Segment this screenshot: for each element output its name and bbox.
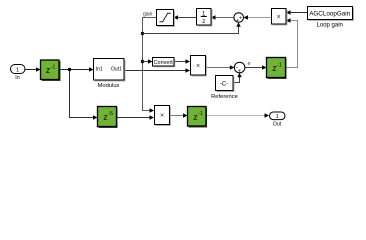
node junction after Z1 (68, 68, 71, 71)
arrow into product1 upper (286, 10, 291, 14)
wire z-5 to product3 lower input (117, 117, 151, 119)
svg-text:1: 1 (276, 114, 279, 120)
saturation block (157, 10, 176, 28)
svg-text:Out1: Out1 (111, 67, 122, 73)
svg-text:In1: In1 (96, 67, 103, 73)
wire In to Z1 (25, 69, 37, 71)
arrow into Modulus (89, 67, 94, 71)
node junction gain to sum1 feedback (141, 32, 144, 35)
wire Convert to product2 upper input (175, 61, 188, 63)
Convert block (153, 58, 176, 68)
svg-text:-1: -1 (51, 64, 56, 70)
wire Z1 mid feedback up to product1 (286, 21, 298, 68)
svg-text:1: 1 (16, 68, 19, 74)
node junction gain to Convert (141, 60, 144, 63)
arrow into product2 upper (186, 59, 191, 63)
wire product2 to sum2 (206, 67, 232, 69)
wire sum1 to unit delay 1/z (214, 17, 234, 19)
unit delay 1/z (197, 9, 213, 27)
subsystem Modulus (94, 59, 126, 90)
svg-text:Reference: Reference (211, 94, 238, 100)
svg-text:×: × (160, 113, 164, 120)
product2 (middle multiply) (191, 56, 208, 77)
sum1 (top accumulator) (234, 13, 244, 25)
arrow into product3 upper (150, 108, 155, 112)
arrow into Z1 in (36, 67, 41, 71)
arrow into z-5 (93, 115, 98, 119)
wire to Convert (143, 61, 150, 63)
arrow into product1 lower (286, 18, 291, 22)
arrow into product3 lower (150, 115, 155, 119)
unit delay Z1 (green, input) (41, 60, 61, 81)
arrow into Convert (148, 59, 153, 63)
arrow into sum2 bottom (237, 73, 241, 78)
svg-text:Modulus: Modulus (98, 83, 120, 89)
wire branch down to z-5 (70, 70, 95, 118)
svg-text:In: In (15, 75, 19, 81)
svg-text:-1: -1 (198, 111, 203, 117)
constant AGCLoopGain (308, 7, 355, 29)
svg-text:×: × (277, 14, 281, 21)
svg-text:e: e (248, 61, 251, 67)
wire Modulus to product2 lower input (124, 70, 187, 72)
wire sum2 to Z1 mid (245, 67, 264, 69)
constant Reference (211, 76, 238, 101)
wire AGCLoopGain to product1 (289, 12, 307, 14)
arrow into product2 lower (186, 68, 191, 72)
wire product3 to Z1 bottom (170, 115, 185, 117)
product1 (top multiply) (272, 9, 288, 26)
delay z-5 (green) (98, 107, 118, 129)
outport Out (270, 112, 286, 127)
svg-text:Loop gain: Loop gain (317, 23, 343, 29)
svg-text:AGCLoopGain: AGCLoopGain (309, 10, 350, 17)
wire 1/z to saturation (177, 17, 197, 19)
sum2 (error) (234, 62, 245, 74)
svg-text:×: × (196, 63, 200, 70)
arrow into 1/z (211, 15, 216, 19)
svg-text:Out: Out (273, 121, 282, 127)
product3 (bottom multiply) (155, 106, 172, 127)
svg-text:-1: -1 (277, 62, 282, 68)
arrow into Z1 bottom (183, 113, 188, 117)
wire product1 to sum1 (247, 17, 272, 19)
wire Reference to sum2 bottom (234, 76, 240, 83)
arrow into sum2 (230, 65, 235, 69)
svg-text:+: + (239, 15, 242, 21)
svg-text:+: + (236, 18, 239, 24)
arrow into sum1 (243, 15, 248, 19)
wire gain line down the left (143, 18, 157, 111)
svg-text:Convert: Convert (154, 60, 174, 66)
inport In (11, 65, 26, 82)
unit delay Z1 bottom (green) (188, 107, 208, 128)
arrow into sum1 bottom (236, 22, 240, 27)
svg-text:+: + (238, 69, 241, 75)
svg-text:-5: -5 (108, 111, 113, 117)
arrow into Out port (265, 113, 270, 117)
svg-text:gain: gain (143, 12, 153, 18)
wire feedback to sum1 bottom (143, 25, 239, 34)
arrow into saturation (174, 15, 179, 19)
svg-text:-C-: -C- (220, 82, 228, 88)
svg-text:z: z (202, 19, 205, 25)
unit delay Z1 mid (green) (267, 58, 287, 80)
wire Z1 to Modulus (60, 69, 91, 71)
arrow into Z1 mid (262, 65, 267, 69)
wire Z1 bottom to Out (206, 115, 266, 117)
